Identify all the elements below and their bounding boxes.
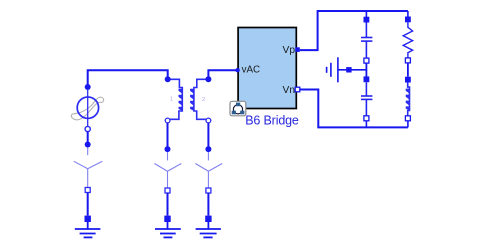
ground G2 port filled square — [164, 216, 170, 222]
wire breaker2 to ground2 — [167, 193, 169, 216]
svg-text:vAC: vAC — [242, 64, 261, 75]
resistor R1 bottom port open square — [405, 58, 410, 63]
ground G1 port filled square — [85, 216, 91, 222]
wire winding2 bottom to breaker3 — [207, 123, 209, 148]
wire resistor drop from top rail — [407, 11, 409, 17]
ground G3 port filled square — [205, 216, 211, 222]
winding 1 bottom port open circle — [165, 118, 170, 123]
wire winding2 to vAC — [208, 70, 236, 78]
ground G4 port filled square — [346, 67, 351, 72]
port Vn open square — [295, 87, 300, 92]
node junction dot breaker1 top — [85, 142, 91, 148]
capacitor C2 top port filled square — [364, 76, 370, 82]
wire C1 to C2 (midpoint node) — [365, 63, 367, 76]
wire breaker3 to ground3 — [207, 193, 209, 216]
breaker 1 bottom port open square — [85, 188, 90, 193]
svg-text:Vn: Vn — [283, 85, 295, 96]
breaker 2 bottom port open square — [165, 188, 170, 193]
wire winding1 bottom to breaker2 — [167, 123, 169, 148]
svg-text:2: 2 — [202, 97, 205, 103]
wire C2 to bottom rail — [365, 121, 367, 128]
capacitor C2 bottom port open square — [364, 116, 369, 121]
svg-text:1: 1 — [170, 97, 173, 103]
inductor L1 bottom port open square — [405, 116, 410, 121]
inductor L1 top port filled square — [405, 77, 411, 83]
wire top-left loop — [88, 70, 168, 86]
inductor L1 teeth — [406, 89, 410, 111]
AC source V1 body line — [87, 89, 89, 97]
capacitor C1 bottom port open square — [364, 58, 369, 63]
wire cap branch drop from top rail — [365, 11, 367, 17]
resistor R1 top port filled square — [405, 17, 411, 23]
wire L1 to bottom rail — [407, 121, 409, 128]
winding 2 bottom port open circle — [206, 118, 211, 123]
capacitor C1 — [361, 23, 372, 59]
B6 Bridge block U1 — [238, 28, 296, 109]
breaker 1 icon (Y symbol) — [74, 148, 103, 188]
B6 Bridge physical network badge — [230, 101, 246, 116]
AC source V1 circle — [77, 97, 98, 118]
transformer T1 winding 1 — [170, 79, 182, 119]
inductor L1 — [408, 83, 410, 116]
breaker 2 icon (Y symbol) — [154, 152, 181, 188]
port Vp filled square — [295, 47, 300, 52]
wire Vn to bottom rail — [300, 90, 408, 128]
transformer T1 winding 2 — [194, 79, 206, 119]
resistor R1 — [403, 22, 412, 58]
ground G1 symbol — [75, 222, 101, 237]
winding 2 teeth — [190, 89, 194, 111]
ground G3 symbol — [196, 222, 221, 237]
capacitor C1 top port filled square — [364, 17, 370, 23]
node junction dot winding2 top — [205, 76, 211, 82]
node junction dot breaker2 top — [165, 146, 171, 152]
AC source sine (gray ribbon) — [71, 97, 103, 120]
AC source vertical line through circle — [87, 97, 89, 127]
capacitor C2 — [361, 82, 372, 116]
node vAC port dot — [235, 68, 239, 72]
ground G2 symbol — [155, 222, 181, 237]
svg-text:B6 Bridge: B6 Bridge — [245, 114, 299, 128]
node junction dot AC top — [85, 84, 91, 90]
winding 1 teeth — [179, 89, 183, 111]
breaker 3 icon (Y symbol) — [195, 152, 222, 188]
wire Vp to top rail — [300, 11, 408, 50]
wire R1 to L1 — [407, 63, 409, 77]
wire AC source to breaker 1 — [87, 132, 89, 144]
breaker 3 bottom port open square — [206, 188, 211, 193]
AC source bottom port open circle — [85, 126, 90, 131]
wire breaker1 to ground1 — [87, 193, 89, 216]
ground G4 (rotated) symbol — [327, 57, 367, 82]
node junction dot breaker3 top — [205, 146, 211, 152]
svg-text:Vp: Vp — [283, 45, 296, 56]
node junction dot winding1 top — [165, 76, 171, 82]
